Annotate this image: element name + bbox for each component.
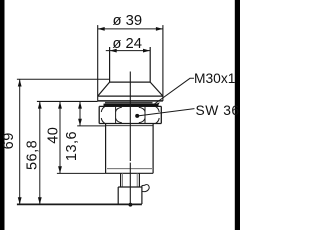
arrow Ø24 right bbox=[143, 49, 150, 53]
arrow Ø39 right bbox=[156, 27, 163, 31]
dim text Ø39 bbox=[112, 13, 142, 29]
extension line 40 bottom bbox=[57, 172, 106, 174]
nut chamfer arcs center facet bbox=[116, 107, 145, 122]
connector block bbox=[118, 186, 142, 205]
arrow 13,6 top bbox=[78, 102, 82, 109]
leader M30x1 arrowhead bbox=[153, 102, 160, 106]
page edge right black bar bbox=[235, 0, 240, 230]
neck inner right bbox=[136, 173, 138, 187]
arrow 40 bottom bbox=[58, 166, 62, 173]
extension line mid (56,8 / 40 / 13,6) bbox=[37, 100, 98, 102]
dim line 40 bbox=[59, 101, 61, 173]
arrow 56,8 bottom bbox=[38, 197, 42, 204]
svg-text:M30x1: M30x1 bbox=[194, 71, 235, 86]
extension line top (69) bbox=[17, 78, 110, 80]
dim line 56,8 bbox=[39, 101, 41, 204]
gasket plate upper bbox=[105, 102, 153, 104]
dim text 56,8 bbox=[25, 140, 41, 170]
flange bottom edge bbox=[98, 100, 163, 102]
arrow 56,8 top bbox=[38, 102, 42, 109]
leader SW 36 dot bbox=[135, 114, 139, 118]
svg-text:13,6: 13,6 bbox=[64, 131, 80, 161]
svg-text:56,8: 56,8 bbox=[25, 140, 41, 170]
hex nut SW36 outline bbox=[99, 106, 161, 123]
arrow 13,6 bottom bbox=[78, 119, 82, 126]
arrow 69 bottom bbox=[18, 197, 22, 204]
label SW 36 bbox=[196, 103, 240, 118]
page edge left black bar bbox=[0, 0, 5, 230]
svg-text:SW 36: SW 36 bbox=[196, 103, 240, 118]
arrow 69 top bbox=[18, 80, 22, 87]
leader M30x1 bbox=[154, 78, 194, 104]
body bottom rim bbox=[106, 172, 154, 174]
dim text Ø24 bbox=[112, 36, 142, 52]
body bottom edge line bbox=[107, 168, 152, 170]
neck outer right bbox=[138, 173, 140, 187]
svg-text:ø 24: ø 24 bbox=[112, 36, 142, 52]
connector latch bbox=[142, 185, 149, 192]
cone flare left bbox=[98, 82, 110, 96]
cap bottom edge bbox=[110, 81, 151, 83]
svg-text:40: 40 bbox=[46, 127, 62, 144]
neck inner left bbox=[122, 173, 124, 187]
dim text 13,6 bbox=[64, 131, 80, 161]
nut facet line left bbox=[115, 106, 117, 123]
leader SW 36 bbox=[137, 109, 195, 116]
dim text 69 bbox=[1, 132, 17, 149]
label M30x1 bbox=[194, 71, 235, 86]
dim line Ø39 bbox=[98, 28, 163, 30]
dim line 13,6 bbox=[79, 101, 81, 126]
extension line Ø39 right / flange right side bbox=[162, 25, 164, 101]
arrow Ø24 left bbox=[110, 49, 117, 53]
baseline bottom bbox=[17, 203, 142, 205]
dim text 40 bbox=[46, 127, 62, 144]
centerline bbox=[129, 72, 131, 205]
extension line 13,6 bottom bbox=[77, 125, 105, 127]
arrow 40 top bbox=[58, 102, 62, 109]
nut facet line right bbox=[144, 106, 146, 123]
dim line 69 bbox=[19, 79, 21, 204]
nut chamfer arcs side facets bbox=[101, 107, 159, 124]
arrow Ø39 left bbox=[98, 27, 105, 31]
svg-text:69: 69 bbox=[1, 132, 17, 149]
cone flare right bbox=[150, 82, 163, 96]
extension line Ø39 left / flange left side bbox=[97, 25, 99, 101]
neck outer left bbox=[120, 173, 122, 187]
dim line Ø24 / cap top edge bbox=[106, 50, 151, 52]
centerline end dot bbox=[129, 203, 133, 207]
flange top edge bbox=[98, 95, 163, 97]
body top chamfer line bbox=[106, 125, 154, 127]
svg-text:ø 39: ø 39 bbox=[112, 13, 142, 29]
gasket plate lower bbox=[104, 104, 159, 107]
body barrel M30 sides bbox=[106, 124, 154, 174]
sensor cap sides (Ø24 head) bbox=[110, 47, 151, 82]
